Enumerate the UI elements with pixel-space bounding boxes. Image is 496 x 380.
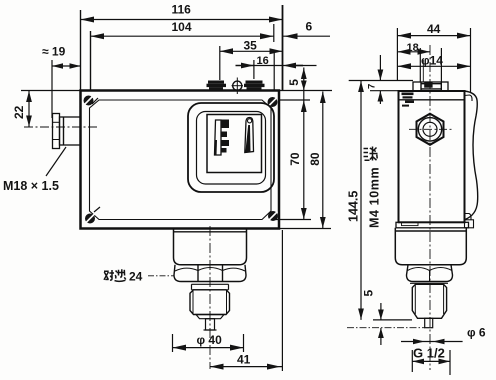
svg-text:φ14: φ14 bbox=[421, 54, 443, 68]
svg-text:G 1/2: G 1/2 bbox=[413, 346, 445, 361]
svg-text:5: 5 bbox=[362, 290, 376, 297]
svg-text:116: 116 bbox=[172, 3, 192, 17]
dim phi14 line bbox=[397, 65, 470, 67]
svg-text:5: 5 bbox=[287, 79, 301, 86]
svg-text:7: 7 bbox=[367, 84, 378, 89]
washer bbox=[192, 284, 229, 290]
corner screw BR bbox=[268, 211, 278, 221]
svg-text:16: 16 bbox=[257, 55, 269, 67]
corner screw BL bbox=[85, 207, 100, 224]
terminal lug right bbox=[244, 81, 265, 91]
DIMENSIONS LEFT VIEW bbox=[21, 5, 332, 371]
block top ext bbox=[349, 80, 413, 82]
dim G1/2 bbox=[412, 360, 450, 362]
hex nut right view bbox=[407, 265, 453, 282]
dim 44 bbox=[397, 35, 470, 37]
dim 104 bbox=[90, 31, 92, 90]
bottom flange bbox=[399, 221, 465, 223]
dim phi6 bbox=[401, 341, 463, 343]
ext tube bottom chain bbox=[347, 327, 425, 329]
fitting step bbox=[196, 315, 224, 319]
main center line bbox=[209, 226, 211, 369]
tube phi6 bbox=[425, 318, 433, 327]
DIMENSIONS RIGHT VIEW bbox=[347, 28, 471, 375]
svg-text:70: 70 bbox=[288, 152, 302, 166]
M18 flange bbox=[53, 114, 60, 149]
body bbox=[399, 91, 465, 222]
scale column bbox=[215, 120, 222, 155]
pointer capsule bbox=[245, 118, 254, 153]
box bottom ext bbox=[279, 228, 331, 230]
M18 cylinder step bbox=[63, 117, 65, 145]
svg-text:41: 41 bbox=[237, 353, 251, 367]
enclosure outer box bbox=[81, 91, 280, 229]
CJK glyph duì 对 bbox=[104, 270, 114, 280]
body top ext left bbox=[370, 90, 399, 92]
bell right view bbox=[395, 228, 466, 265]
bell top line bbox=[174, 231, 247, 233]
window bezel outer bbox=[188, 103, 274, 192]
ext 44 right bbox=[470, 28, 472, 92]
body top seam bbox=[399, 99, 465, 101]
dim 41 bbox=[281, 230, 283, 371]
enclosure cover inner line bbox=[90, 100, 272, 220]
dim 18 bbox=[397, 51, 430, 53]
svg-text:24: 24 bbox=[129, 270, 143, 284]
dim 116 bbox=[81, 19, 283, 21]
svg-text:44: 44 bbox=[427, 22, 441, 36]
side cover profile bbox=[465, 91, 478, 220]
dim 6 bbox=[283, 35, 331, 37]
CJK glyph biān 边 bbox=[115, 269, 126, 281]
CJK glyph shēn 深 (rotated appearance) bbox=[364, 147, 378, 161]
svg-text:22: 22 bbox=[12, 105, 26, 119]
washer line bbox=[410, 282, 448, 284]
terminal screw center bbox=[232, 78, 244, 95]
corner screw TR bbox=[268, 97, 278, 107]
svg-text:6: 6 bbox=[306, 20, 313, 34]
ext 44 left bbox=[396, 28, 398, 80]
svg-text:M4 10mm: M4 10mm bbox=[368, 167, 382, 228]
dim 16 bbox=[253, 60, 255, 79]
M18 leader bbox=[46, 147, 66, 176]
svg-text:≈ 19: ≈ 19 bbox=[42, 45, 66, 59]
svg-text:80: 80 bbox=[308, 152, 322, 166]
vertical center line right view bbox=[429, 45, 431, 370]
svg-text:35: 35 bbox=[244, 39, 258, 53]
svg-text:M18 × 1.5: M18 × 1.5 bbox=[3, 179, 59, 193]
dim 22 bbox=[28, 91, 30, 127]
dim 5 right view bbox=[380, 303, 382, 320]
phi14 ext ticks bbox=[419, 48, 421, 82]
threaded fitting right bbox=[412, 284, 446, 318]
dim 7 bbox=[379, 55, 381, 80]
ext fitting bottom bbox=[373, 319, 412, 321]
M18 cylinder bbox=[60, 117, 81, 145]
svg-text:18: 18 bbox=[407, 42, 419, 54]
terminal lug left bbox=[207, 81, 227, 91]
pin bbox=[204, 319, 217, 330]
top block bbox=[413, 82, 448, 91]
svg-text:144.5: 144.5 bbox=[347, 191, 361, 222]
RIGHT VIEW bbox=[395, 45, 477, 370]
dim phi40 bbox=[172, 334, 174, 352]
svg-text:φ 6: φ 6 bbox=[467, 326, 486, 340]
window bezel middle bbox=[197, 112, 266, 185]
dim 80 bbox=[322, 92, 324, 229]
hex nut front bbox=[174, 265, 246, 282]
bell housing bbox=[174, 229, 247, 265]
hex nut side view bbox=[417, 114, 444, 145]
svg-text:φ 40: φ 40 bbox=[197, 333, 223, 347]
box top ext segments bbox=[21, 90, 81, 92]
dim 70 arrows bbox=[301, 100, 307, 112]
terminal dashes side bbox=[402, 93, 415, 107]
ext line right 116/6 bbox=[282, 5, 284, 90]
window glass bbox=[207, 115, 262, 173]
dim 5 top right bbox=[303, 68, 305, 220]
corner screw TL bbox=[84, 95, 99, 106]
scale teeth bbox=[221, 120, 229, 153]
G1/2 ext lines bbox=[411, 350, 413, 372]
dim 35 bbox=[219, 46, 221, 80]
leader duibian24 bbox=[148, 275, 174, 277]
threaded fitting bbox=[190, 290, 230, 315]
dim 144.5 bbox=[360, 81, 362, 320]
ext line left 116 bbox=[80, 10, 82, 90]
dim approx19 bbox=[51, 60, 53, 118]
svg-text:104: 104 bbox=[172, 20, 192, 34]
connector center line bbox=[24, 126, 97, 128]
inner top ext bbox=[279, 99, 310, 101]
